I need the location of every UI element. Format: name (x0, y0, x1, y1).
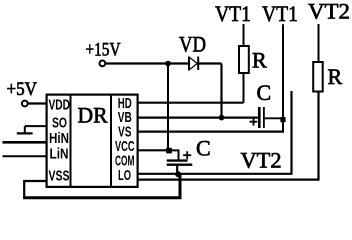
terminal +15V (100, 61, 106, 67)
svg-text:C: C (196, 136, 211, 161)
svg-text:VDD: VDD (49, 97, 71, 114)
svg-text:SO: SO (52, 115, 67, 132)
wire VT1 second stub down (282, 24, 284, 131)
terminal +5V (22, 101, 28, 107)
IC inner divider right (110, 95, 112, 187)
svg-text:LO: LO (118, 167, 131, 184)
wire +15V rail to diode anode (106, 62, 189, 64)
wire COM corner up stub (290, 91, 292, 175)
svg-text:+5V: +5V (7, 79, 38, 100)
wire cap to VT1 node (265, 117, 283, 119)
node junction on VB line (219, 115, 225, 121)
svg-text:DR: DR (78, 103, 108, 128)
wire R1 top lead to VT1 (243, 24, 245, 46)
diode VD (189, 57, 198, 71)
wire COM line (138, 173, 292, 175)
wire bottom rail (23, 196, 181, 199)
wire junction down to VCC node (167, 64, 169, 151)
wire R2 top lead to VT2 (318, 24, 320, 62)
node square junction cap/VT1 (280, 117, 285, 122)
IC inner divider left (70, 95, 72, 187)
resistor R2 (313, 62, 323, 92)
svg-text:VT1: VT1 (215, 1, 251, 26)
wire diode cathode right then down to VB line (199, 64, 222, 118)
wire HD line (138, 102, 244, 104)
wire VCC elbow to cap (169, 150, 179, 160)
SO input symbol (17, 126, 47, 133)
svg-text:VD: VD (179, 32, 206, 57)
capacitor C electrolytic (167, 151, 193, 165)
wire LiN input (3, 155, 47, 157)
svg-text:R: R (252, 48, 267, 73)
svg-text:VT2: VT2 (308, 0, 350, 24)
capacitor C bootstrap (250, 107, 264, 128)
wire VSS loop to bottom rail (24, 181, 46, 198)
wire VCC line (138, 149, 168, 151)
svg-text:+15V: +15V (86, 40, 121, 61)
node junction on +15V rail (165, 61, 171, 67)
svg-text:C: C (257, 80, 272, 105)
wire +5V to VDD (28, 102, 47, 104)
svg-text:VT2: VT2 (241, 148, 282, 173)
resistor R1 (239, 46, 249, 73)
IC DR body (47, 95, 138, 187)
wire riser rail to COM (179, 174, 182, 197)
wire VS line (138, 131, 284, 133)
svg-text:VT1: VT1 (262, 1, 298, 26)
wire LO line (138, 179, 319, 181)
wire LO corner up to R2 (317, 91, 319, 181)
wire VB line (138, 116, 259, 118)
svg-text:HiN: HiN (49, 130, 69, 147)
node junction COM/rail/cap (175, 171, 181, 177)
wire R1 bottom lead (243, 72, 245, 103)
node square junction VCC (166, 148, 172, 154)
wire HiN input (3, 141, 47, 144)
wire cap lead down (176, 165, 178, 175)
svg-text:VSS: VSS (49, 168, 70, 185)
svg-text:LiN: LiN (50, 146, 69, 163)
svg-text:R: R (328, 64, 343, 89)
